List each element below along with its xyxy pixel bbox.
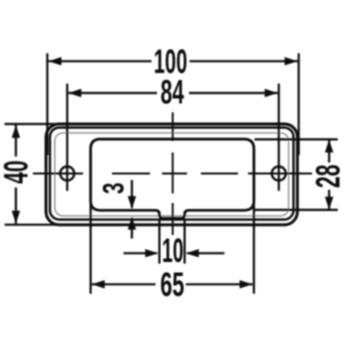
dim 84: dimension line [68,92,157,94]
housing rim line [50,128,294,220]
screw hole left [60,167,74,181]
svg-text:65: 65 [160,266,184,304]
dim 3: leader arrows [131,180,133,208]
dim 28: extension lines [255,138,338,140]
dim 65: extension lines [89,201,91,294]
svg-text:10: 10 [162,232,184,270]
dim 65: dimension line [92,283,156,285]
dim 100: arrows [48,57,61,65]
dim 84: arrows [68,89,81,97]
lens panel with bottom notch [91,139,254,218]
svg-text:84: 84 [160,73,184,111]
dim 100: dimension line [48,60,151,62]
dim 84: extension lines [66,84,68,191]
faint lens seat contour [55,133,289,216]
dim 28: dimension line [328,140,330,162]
dim 10: dimension line [124,252,158,254]
dim 100: extension lines [46,53,48,155]
dim 65: arrows [92,280,105,288]
svg-text:3: 3 [98,183,131,195]
horizontal centerline [33,173,312,175]
svg-text:28: 28 [310,165,348,189]
svg-text:40: 40 [0,160,35,184]
dim 40: arrows [12,125,20,138]
dim 40: extension lines [5,123,67,125]
dim 10: extension lines [158,220,160,264]
vertical centerline [172,112,174,235]
dim 28: arrows [325,140,333,153]
dim 40: dimension line [15,125,17,157]
screw hole right [272,167,286,181]
dim 10: arrows [145,249,158,257]
housing outer outline [46,124,297,225]
